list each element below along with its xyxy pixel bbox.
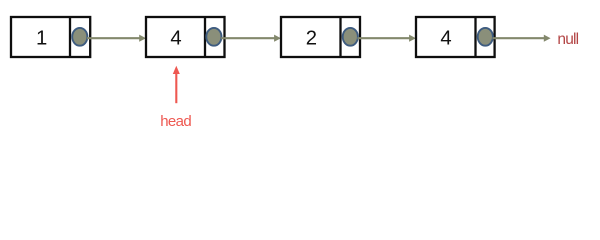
node 4 divider bbox=[474, 17, 476, 57]
svg-text:4: 4 bbox=[170, 27, 181, 49]
node 3 box bbox=[281, 17, 360, 57]
node 3 pointer circle bbox=[343, 28, 358, 46]
svg-text:4: 4 bbox=[440, 27, 451, 49]
svg-text:1: 1 bbox=[36, 27, 47, 49]
node 4 box bbox=[416, 17, 495, 57]
svg-text:2: 2 bbox=[306, 27, 317, 49]
node 3 divider bbox=[339, 17, 341, 57]
node 2 divider bbox=[204, 17, 206, 57]
svg-text:head: head bbox=[160, 113, 191, 130]
head arrow bbox=[173, 66, 180, 103]
wire arrow node1 to node2 bbox=[87, 35, 146, 42]
node 2 box bbox=[146, 17, 225, 57]
node 2 pointer circle bbox=[206, 28, 221, 46]
node 1 divider bbox=[69, 17, 71, 57]
node 1 pointer circle bbox=[72, 28, 87, 46]
node 1 box bbox=[11, 17, 90, 57]
node 4 pointer circle bbox=[478, 28, 493, 46]
wire arrow node3 to node4 bbox=[358, 35, 416, 42]
wire arrow node2 to node3 bbox=[221, 35, 281, 42]
wire arrow node4 to null bbox=[493, 35, 551, 42]
svg-text:null: null bbox=[557, 31, 578, 48]
